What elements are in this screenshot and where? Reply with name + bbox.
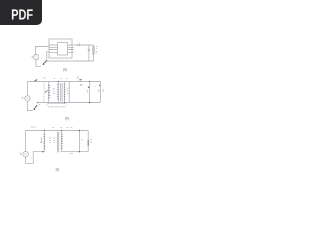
core (c) (57, 132, 58, 153)
load labels (96, 47, 98, 53)
inline diode D2 (79, 79, 81, 81)
variac winding W1 (47, 82, 49, 103)
load branch (b) (99, 82, 101, 103)
caption brace (47, 104, 66, 105)
bottom rail (b) (37, 102, 100, 104)
arrow symbol (a) (43, 60, 47, 64)
svg-text:(c): (c) (56, 168, 60, 172)
rail labels (43, 77, 68, 80)
transformer left boundary wire (43, 82, 45, 103)
bottom rail (a) (47, 60, 94, 62)
junction dot (42, 151, 43, 152)
right vertical wire (68, 82, 70, 103)
source label vi (32, 56, 34, 58)
junction dots (58, 81, 59, 82)
secondary winding (b) (64, 82, 66, 103)
core (61, 83, 62, 102)
variac arrow (45, 90, 47, 92)
current label Io (76, 76, 79, 78)
capacitor C branch (b) (89, 82, 91, 103)
AC source V2 (23, 151, 29, 157)
bottom small label (70, 153, 73, 155)
svg-text:(b): (b) (65, 116, 69, 120)
wire source top (27, 82, 29, 96)
source label (22, 97, 24, 99)
top output wire (74, 44, 94, 46)
oscillator source box VS1 (34, 55, 38, 59)
load resistor RL1 (93, 45, 95, 61)
primary winding (c) (43, 130, 45, 151)
IC outer box U1 (49, 39, 72, 58)
N2 label marks (67, 89, 69, 93)
right pins (68, 45, 74, 52)
bottom rail (c) (61, 151, 88, 153)
arrow symbol (b) (34, 105, 37, 109)
transformer labels N1 N2 (53, 89, 55, 93)
secondary winding (c) (60, 130, 62, 151)
inline diode D1 marks (77, 44, 80, 46)
primary winding (b) (57, 82, 59, 103)
middle labels (49, 138, 51, 142)
AC source V1 (25, 96, 30, 101)
load branch (c) with component (87, 130, 89, 151)
top rail (b) (28, 81, 101, 83)
switch S1 (35, 80, 38, 82)
wire below source (36, 59, 41, 66)
wires source (25, 130, 27, 151)
svg-text:Transformer: Transformer (47, 104, 66, 108)
svg-text:(a): (a) (63, 68, 67, 72)
IC inner box (58, 43, 68, 56)
capacitor C1 branch (88, 45, 90, 61)
top rail (c) (26, 129, 89, 131)
PDF badge (0, 0, 42, 25)
wire arrow to pin (47, 52, 49, 61)
left pins (49, 45, 58, 52)
winding label left (40, 138, 42, 144)
cap branch (c) (78, 130, 80, 151)
wire source bottom (28, 101, 33, 111)
rail labels v(t) etc (30, 126, 35, 128)
wire source-top to IC (36, 46, 50, 54)
